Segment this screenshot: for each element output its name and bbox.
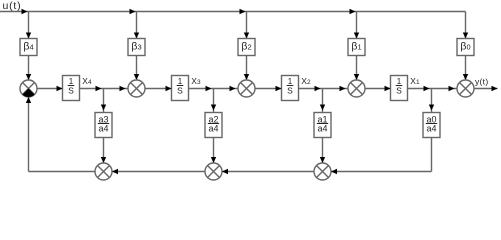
svg-text:u(t): u(t): [3, 0, 22, 12]
svg-text:y(t): y(t): [475, 77, 488, 87]
svg-text:S: S: [177, 86, 183, 96]
svg-text:a4: a4: [426, 123, 436, 133]
svg-text:β4: β4: [23, 41, 33, 53]
svg-text:X3: X3: [191, 76, 201, 86]
svg-text:β0: β0: [460, 41, 470, 53]
svg-text:β3: β3: [131, 41, 141, 53]
svg-text:X1: X1: [410, 76, 420, 86]
svg-text:a4: a4: [208, 123, 218, 133]
svg-text:β2: β2: [241, 41, 251, 53]
svg-text:X4: X4: [82, 76, 92, 86]
svg-text:X2: X2: [301, 76, 311, 86]
svg-text:a4: a4: [98, 123, 108, 133]
svg-text:S: S: [68, 86, 74, 96]
svg-text:S: S: [396, 86, 402, 96]
svg-text:S: S: [287, 86, 293, 96]
svg-text:a4: a4: [317, 123, 327, 133]
svg-text:β1: β1: [351, 41, 361, 53]
